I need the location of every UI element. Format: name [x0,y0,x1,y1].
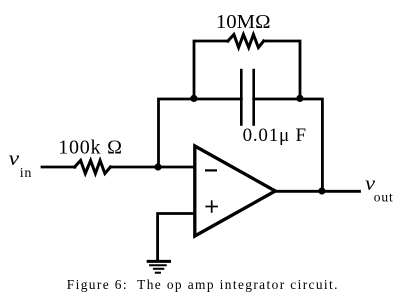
node junction dot left of feedback [190,95,197,102]
capacitor C1 right plate [252,69,255,126]
svg-text:in: in [20,166,32,181]
wire top-right segment from feedback resistor [264,41,300,99]
svg-text:10MΩ: 10MΩ [216,11,271,33]
wire op-amp noninverting input [158,214,194,261]
op-amp plus sign [205,200,218,213]
resistor R1 100k zigzag [75,161,111,174]
node junction dot right of feedback [296,95,303,102]
capacitor C1 left plate [240,69,243,126]
op-amp minus sign [205,169,217,171]
svg-text:0.01μ F: 0.01μ F [243,125,307,146]
ground symbol [147,261,171,272]
wire top-left segment to feedback resistor [194,41,228,99]
svg-text:v: v [9,148,20,170]
svg-text:100k Ω: 100k Ω [58,137,122,159]
node junction dot inverting input [154,163,161,170]
wire input left of R1 [42,166,75,169]
svg-text:out: out [374,190,393,205]
svg-text:Figure 6: The op amp integrat: Figure 6: The op amp integrator circuit. [67,277,338,292]
resistor R2 10M zigzag [228,35,264,48]
wire middle-right segment from capacitor [254,99,323,191]
node junction dot output [318,187,325,194]
wire output [275,190,359,193]
wire from R1 to op-amp inverting input [110,166,194,169]
op-amp U1 triangle [195,146,275,236]
wire middle-left segment to capacitor [159,99,242,167]
